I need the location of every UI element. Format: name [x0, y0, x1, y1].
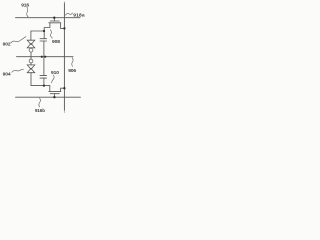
leader squiggle from plate line to label 906 [72, 58, 73, 67]
svg-text:916b: 916b [35, 108, 45, 113]
wire storage node SN1 [31, 30, 44, 32]
leader squiggle from label 910 to M2 source wire [52, 75, 55, 83]
bit line faded top tip [63, 2, 65, 3]
selector S2 top stub [30, 57, 32, 59]
leader tilde from bit line to label 918 [65, 13, 72, 15]
capacitor C1 top lead [43, 31, 45, 39]
transistor M1 channel bar [49, 22, 61, 24]
svg-text:916: 916 [21, 2, 29, 8]
leader squiggle from WL2 to label 917 [39, 98, 41, 107]
junction dot M2 drain on bit line [63, 87, 65, 89]
wire plate line [17, 56, 74, 58]
svg-text:906: 906 [68, 68, 76, 74]
wire word line WL2 [16, 96, 81, 98]
capacitor C2 bottom lead [43, 78, 45, 86]
junction dot gate M2 on WL2 [53, 96, 55, 98]
leader tilde from label 902 to selector S1 [11, 37, 26, 43]
selector S1 bottom stub [30, 52, 32, 57]
selector S2 up triangle [27, 68, 35, 72]
junction dot SN1 capacitor node [43, 30, 45, 32]
leader squiggle from label 916 to WL1 [27, 7, 29, 17]
svg-text:918a: 918a [73, 12, 85, 18]
selector S2 stub from circle to triangles [30, 63, 32, 65]
svg-text:904: 904 [3, 71, 11, 77]
capacitor C2 plates [40, 75, 47, 77]
capacitor C1 bottom lead [43, 41, 45, 57]
transistor M2 gate stub [53, 94, 55, 98]
selector S1 up triangle [27, 43, 35, 47]
wire storage node SN2 [31, 85, 50, 87]
selector S2 down triangle [27, 65, 35, 69]
transistor M2 source leg from node SN2 [49, 86, 51, 92]
wire word line WL1 [16, 17, 81, 19]
junction dot gate M1 on WL1 [53, 17, 55, 19]
junction dot SN2 capacitor node [43, 84, 45, 86]
svg-text:910: 910 [51, 70, 59, 76]
transistor M2 channel bar [49, 91, 61, 93]
selector S1 circle element [29, 48, 33, 52]
leader squiggle from label 908 to M1 source wire [50, 30, 52, 38]
transistor M1 source leg and jog to node SN1 [44, 23, 50, 31]
selector S2 circle element [29, 59, 33, 63]
junction dot C2 on plate line [44, 56, 46, 58]
svg-text:902: 902 [3, 41, 11, 47]
transistor M1 drain leg to bit line [61, 23, 65, 29]
transistor M1 gate bar [50, 20, 59, 22]
junction dot C1 on plate line [41, 56, 43, 58]
selector S1 top stub [30, 31, 32, 40]
selector S2 bottom stub to node SN2 [30, 73, 32, 86]
selector S1 down triangle [27, 40, 35, 44]
leader tilde from label 904 to selector S2 [12, 69, 24, 72]
bit line faded bottom tip [63, 111, 65, 113]
capacitor C1 plates [40, 38, 47, 40]
capacitor C2 top lead [43, 57, 45, 76]
transistor M2 drain leg to bit line [61, 88, 65, 91]
transistor M1 gate stub [53, 18, 55, 21]
transistor M2 gate bar [50, 93, 59, 95]
junction dot M1 drain on bit line [63, 27, 65, 29]
svg-text:908: 908 [52, 39, 60, 45]
bit line [63, 3, 65, 111]
